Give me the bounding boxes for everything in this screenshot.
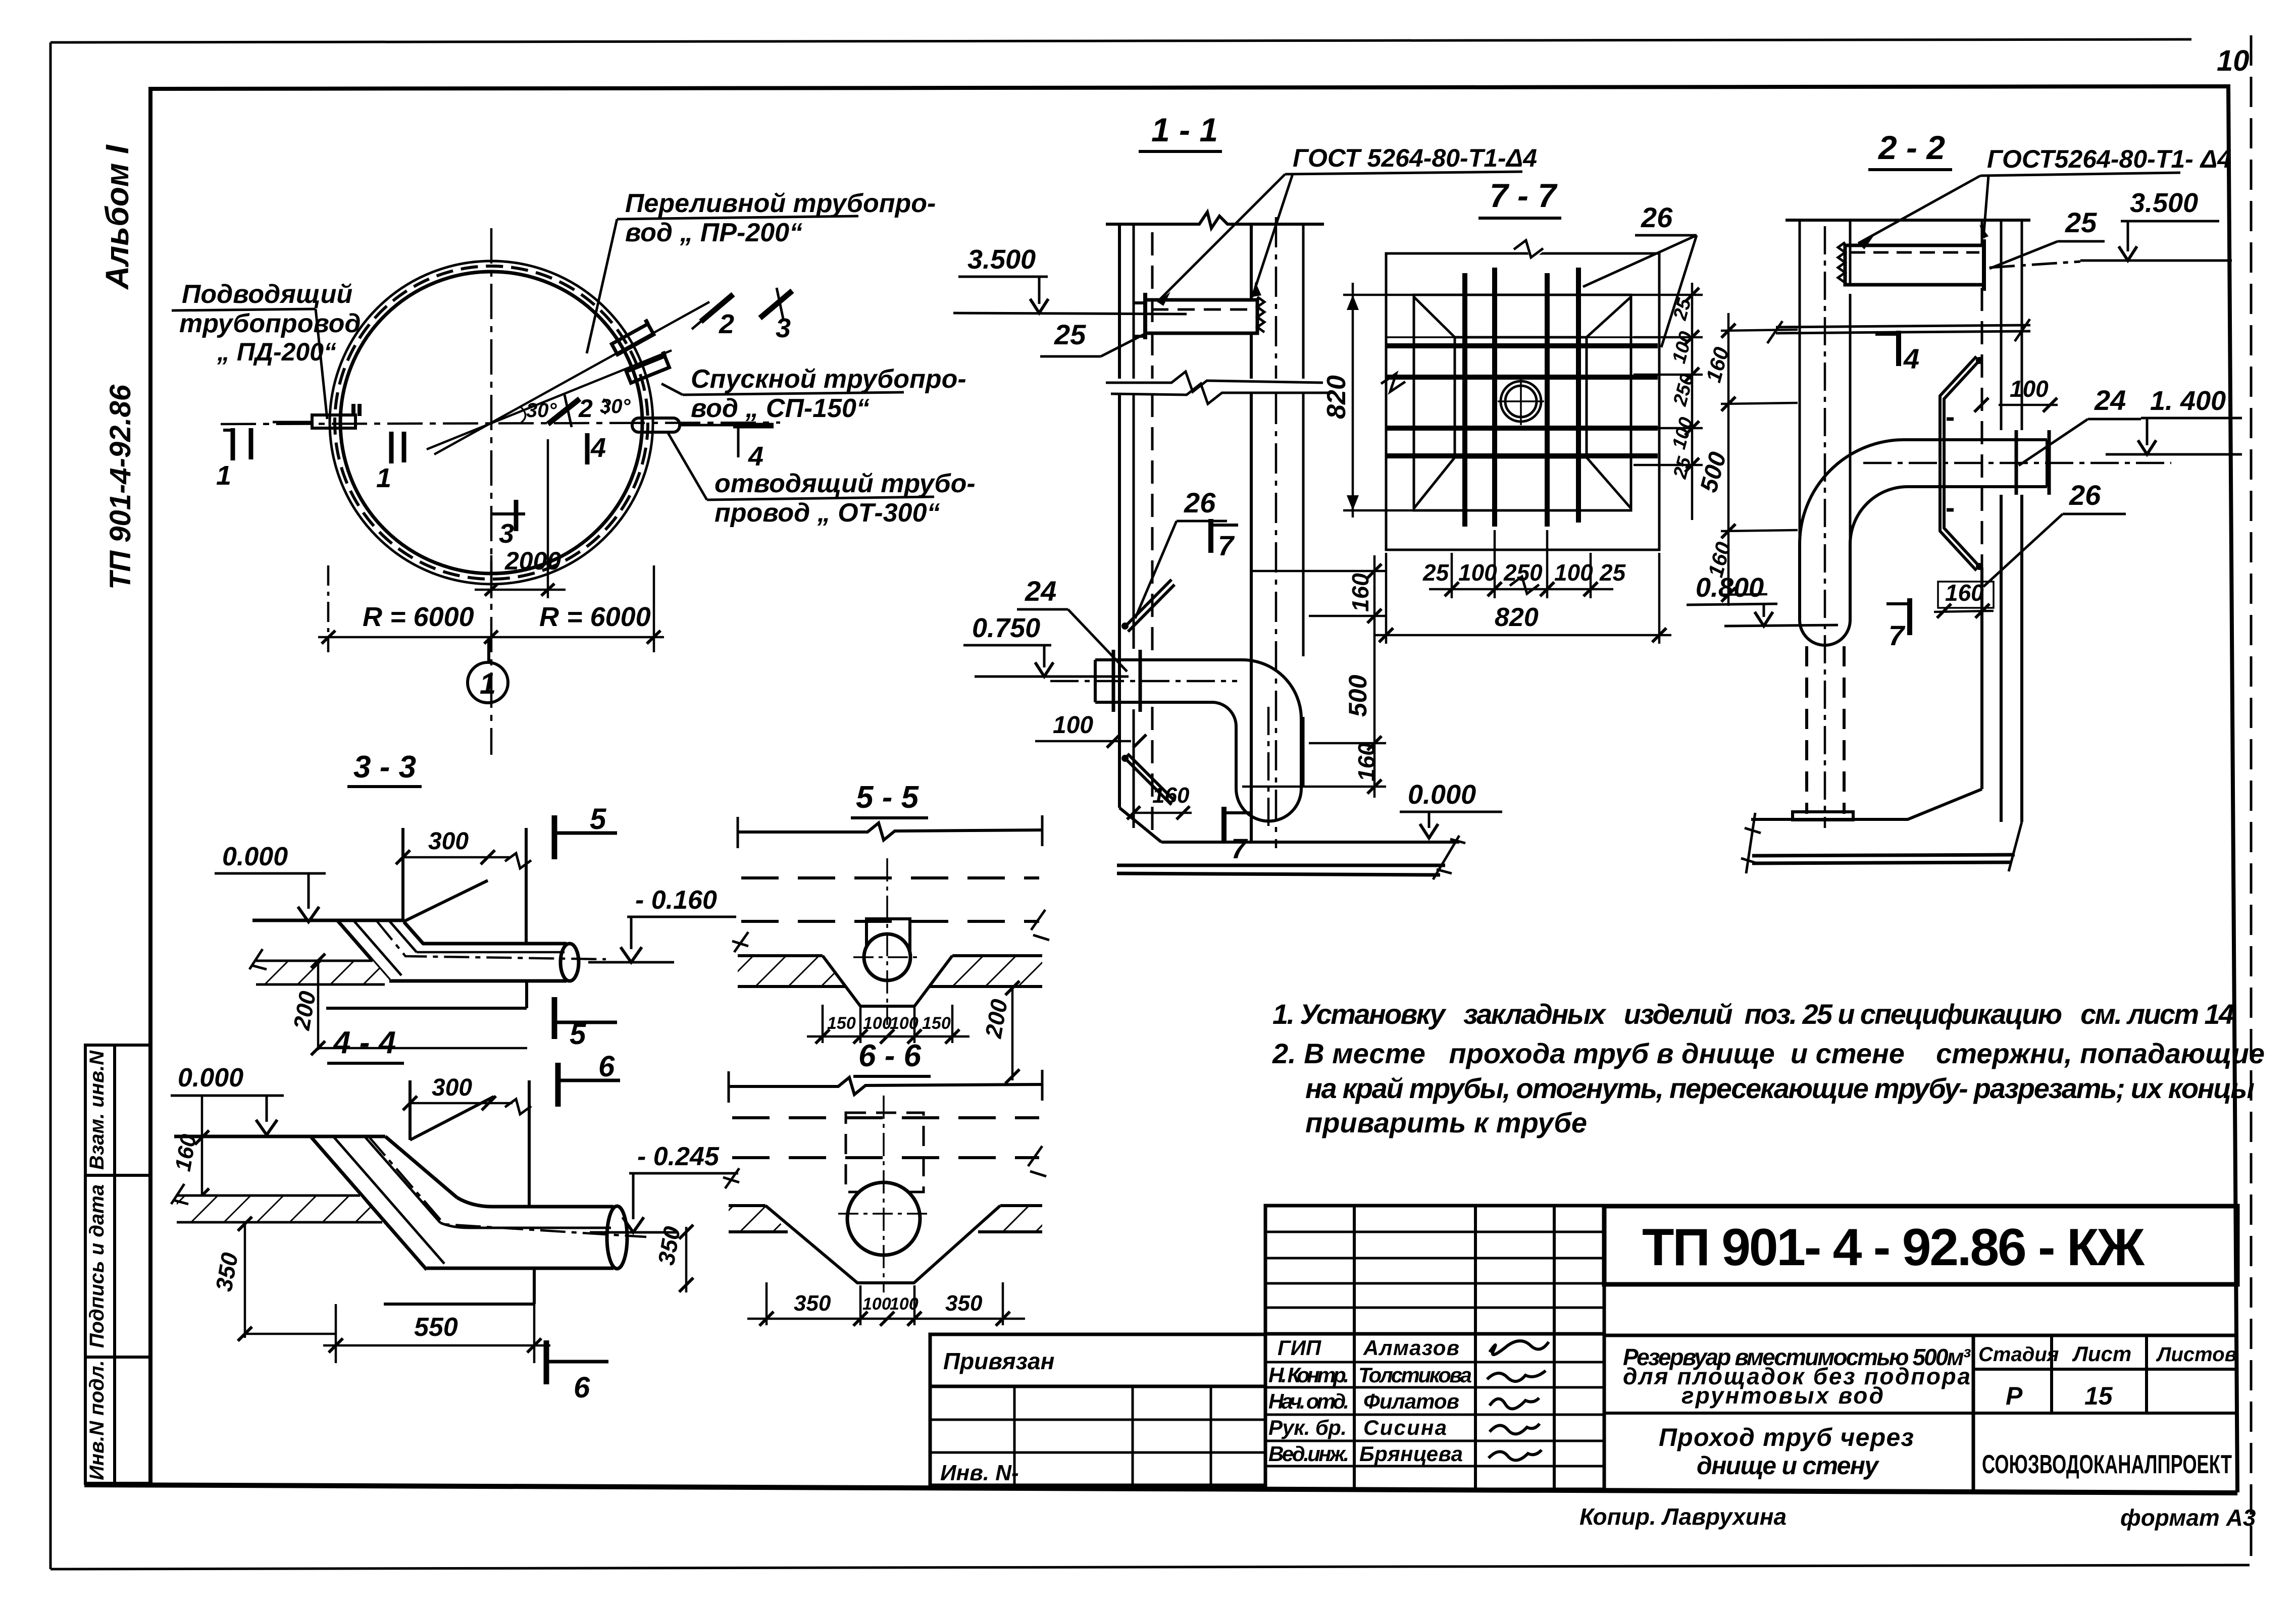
position label 25 leader: [1040, 319, 1146, 356]
top edge line: [1785, 219, 2030, 222]
pipe centerline horizontal: [1050, 680, 1237, 683]
overflow sleeve PR-200: [609, 320, 653, 354]
dim 100 wall thickness: [1974, 376, 2058, 412]
level mark 0.750: [963, 613, 1129, 677]
svg-text:провод „ ОТ-300“: провод „ ОТ-300“: [715, 498, 940, 528]
svg-text:2: 2: [578, 394, 593, 423]
horizontal pipe top edge: [1904, 438, 2047, 441]
outer plate square: [1386, 253, 1659, 550]
pipe axis slope: [369, 1136, 646, 1237]
svg-text:на край трубы, отогнуть, перес: на край трубы, отогнуть, пересекающие тр…: [1305, 1072, 2255, 1104]
svg-text:0.000: 0.000: [1408, 780, 1476, 810]
left margin stamp table: [85, 1045, 150, 1483]
svg-text:5 - 5: 5 - 5: [856, 780, 920, 815]
break marks left right: [732, 910, 1049, 952]
vertical pipe edges: [1800, 544, 1850, 620]
pipe end ellipse: [607, 1206, 627, 1269]
signatures squiggles: [1487, 1341, 1549, 1460]
dim 200 right: [980, 981, 1019, 1083]
svg-text:100: 100: [862, 1294, 891, 1314]
inner square: [1414, 295, 1631, 510]
slab hatch right: [978, 1206, 1042, 1232]
svg-text:- 0.160: - 0.160: [635, 886, 717, 915]
position label 25 leader: [1989, 206, 2105, 269]
svg-text:25: 25: [1599, 559, 1626, 586]
svg-text:26: 26: [1184, 487, 1216, 518]
pipe slope band: [311, 1136, 457, 1270]
dim 350 left: [211, 1217, 336, 1341]
svg-text:160: 160: [1353, 743, 1380, 782]
svg-text:550: 550: [414, 1313, 458, 1342]
section cut mark 1 left inner: [376, 432, 404, 493]
level mark 0.000: [215, 842, 326, 922]
svg-text:0.800: 0.800: [1696, 573, 1764, 603]
svg-text:350: 350: [794, 1291, 831, 1316]
position label 26 leader: [1135, 487, 1227, 618]
stadiya list listov boxes: [1973, 1335, 2237, 1492]
project name box top line: [1604, 1334, 2237, 1337]
svg-text:0.000: 0.000: [222, 842, 288, 871]
vertical pipe U bottom: [1800, 620, 1850, 645]
svg-text:ТП 901-4-92.86: ТП 901-4-92.86: [104, 384, 137, 590]
svg-text:300: 300: [428, 828, 469, 855]
section mark 7 lower: [1224, 807, 1251, 864]
svg-text:Листов: Листов: [2156, 1343, 2237, 1366]
vertical centerline: [490, 228, 493, 755]
svg-text:3.500: 3.500: [967, 244, 1036, 275]
svg-text:820: 820: [1495, 603, 1539, 632]
label podvodyashchiy truboprovod PD-200: [172, 280, 361, 419]
pipe elbow outer arc: [1242, 660, 1301, 719]
floor top line with haunch: [1751, 567, 1982, 819]
svg-text:Алмазов: Алмазов: [1363, 1336, 1459, 1360]
hook bracket poz.26 lower: [1121, 754, 1175, 805]
svg-text:26: 26: [2069, 479, 2101, 511]
level mark -0.160: [588, 886, 736, 962]
weld spec label GOST5264-80-T1-D4: [1858, 145, 2231, 249]
center pipe circle: [1501, 381, 1541, 422]
corner chamfer diagonals: [1414, 297, 1631, 508]
water line upper: [1776, 325, 2030, 327]
floor haunch diagonal: [1119, 808, 1161, 842]
label otvodyashchiy truboprovod OT-300: [668, 432, 976, 528]
signature rows text: [1268, 1336, 1472, 1466]
wall top edge with break jog: [738, 823, 1042, 840]
section cut mark 4 inner: [587, 433, 606, 464]
pipe horizontal bottom edge: [1095, 701, 1212, 704]
svg-text:1: 1: [480, 667, 496, 700]
svg-text:4 - 4: 4 - 4: [332, 1025, 396, 1060]
dim 550 bottom: [323, 1304, 550, 1363]
left break mark: [249, 949, 267, 969]
svg-text:формат А3: формат А3: [2120, 1504, 2256, 1531]
svg-text:Нач. отд.: Нач. отд.: [1268, 1389, 1349, 1413]
svg-text:1: 1: [376, 463, 391, 493]
svg-text:- 0.245: - 0.245: [637, 1142, 720, 1171]
pipe left end cap: [1094, 660, 1097, 702]
svg-text:2: 2: [719, 309, 734, 339]
svg-text:Филатов: Филатов: [1363, 1389, 1459, 1413]
hook bracket poz.26 upper: [1121, 580, 1175, 632]
svg-text:1. 400: 1. 400: [2150, 386, 2226, 416]
radial axis to SP-150 sleeve: [427, 350, 672, 449]
pipe centerline vertical: [1824, 226, 1826, 828]
outlet sleeve OT-300: [632, 418, 733, 432]
svg-text:2 - 2: 2 - 2: [1877, 129, 1945, 166]
rebar horizontal bars: [1387, 346, 1658, 456]
left privyazan box: [930, 1334, 1265, 1485]
svg-text:100: 100: [1458, 559, 1497, 586]
svg-text:160: 160: [1152, 783, 1190, 808]
svg-text:250: 250: [1503, 559, 1543, 586]
water dashed line upper: [741, 876, 1039, 879]
level mark 3.500: [953, 244, 1187, 314]
break marks: [723, 1146, 1046, 1188]
pipe vertical edges: [1236, 719, 1301, 789]
inlet sleeve PD-200: [273, 404, 360, 428]
pipe slope left inner edge: [353, 920, 401, 975]
slab hatch left: [256, 961, 389, 984]
right pipe bottom edge: [389, 979, 567, 983]
drain sleeve SP-150: [625, 351, 670, 383]
sleeve plate square: [1455, 337, 1587, 457]
pipe bottom U end: [1236, 789, 1301, 821]
funnel diagonal: [410, 1097, 494, 1140]
sleeve box above pipe: [866, 919, 910, 956]
left dim 820: [1322, 283, 1417, 517]
svg-text:24: 24: [2094, 384, 2126, 416]
right dimension chain 160-500-160: [1242, 555, 1386, 798]
section cut 6 top flag: [558, 1050, 620, 1107]
svg-text:160: 160: [1945, 580, 1984, 606]
inner border frame: [150, 86, 2237, 1492]
funnel right vertical: [525, 828, 528, 944]
svg-text:грунтовых вод: грунтовых вод: [1681, 1382, 1883, 1409]
slab top lines: [729, 1204, 1042, 1207]
sheet name divider: [1604, 1412, 1973, 1415]
svg-text:2000: 2000: [504, 547, 561, 575]
svg-text:7: 7: [1889, 619, 1906, 651]
label spusknoy truboprovod SP-150: [661, 365, 966, 423]
slab hatch left: [177, 1196, 382, 1222]
svg-text:СОЮЗВОДОКАНАЛПРОЕКТ: СОЮЗВОДОКАНАЛПРОЕКТ: [1982, 1450, 2232, 1479]
section cut mark 3 flag: [760, 288, 792, 343]
svg-text:7: 7: [1218, 530, 1235, 561]
svg-text:Толстикова: Толстикова: [1358, 1363, 1472, 1387]
svg-text:7 - 7: 7 - 7: [1490, 177, 1558, 214]
pipe slope left edge: [337, 920, 389, 980]
svg-text:25: 25: [2065, 206, 2097, 238]
right pipe top edge: [457, 1198, 614, 1207]
sleeve below pipe dashed: [1807, 646, 1844, 814]
dim 160 left: [171, 1096, 209, 1203]
section mark 4 flag: [1875, 331, 1919, 375]
section cut mark 3 below center: [492, 500, 525, 549]
dim 2000: [475, 439, 566, 598]
section cut 6 bottom flag: [546, 1340, 608, 1404]
svg-text:Проход труб через: Проход труб через: [1659, 1423, 1914, 1451]
wall sleeve at pipe pass: [2016, 430, 2049, 495]
slab bottom lines: [738, 985, 1042, 988]
svg-text:0.750: 0.750: [972, 613, 1040, 643]
label perelivnoy truboprovod PR-200: [587, 189, 936, 353]
svg-text:ТП 901- 4 - 92.86 - КЖ: ТП 901- 4 - 92.86 - КЖ: [1642, 1218, 2145, 1277]
svg-text:30°: 30°: [526, 399, 557, 422]
slab hatch left: [738, 956, 845, 986]
floor top line: [252, 919, 403, 922]
funnel left vertical: [401, 828, 404, 920]
svg-text:Копир. Лаврухина: Копир. Лаврухина: [1579, 1503, 1787, 1530]
funnel left vertical: [409, 1080, 412, 1140]
svg-text:Альбом I: Альбом I: [99, 144, 135, 290]
section mark 7 upper: [1211, 519, 1238, 561]
water dashed line upper: [732, 1116, 1039, 1119]
inner border bottom line: [84, 1485, 2237, 1493]
position label 24 leader: [2019, 384, 2141, 465]
V recess outline: [766, 1206, 1000, 1283]
right pipe top edge: [422, 942, 567, 946]
svg-text:7: 7: [1231, 833, 1248, 864]
funnel diagonal: [403, 880, 488, 922]
svg-text:3: 3: [776, 313, 791, 343]
slab top lines: [738, 954, 1042, 957]
svg-text:вод „ СП-150“: вод „ СП-150“: [691, 394, 870, 423]
channel bracket poz.26 on wall: [1940, 356, 1983, 570]
right pipe inner top line: [440, 1223, 611, 1228]
level mark -0.245: [590, 1142, 738, 1232]
svg-text:4: 4: [590, 433, 606, 463]
dim 350 right of 4-4: [653, 1224, 693, 1292]
svg-text:Инв. N-: Инв. N-: [940, 1461, 1019, 1485]
svg-text:820: 820: [1322, 375, 1351, 419]
wall faces going down to floor: [2001, 495, 2022, 822]
dim 160: [1934, 580, 1994, 618]
svg-text:350: 350: [945, 1291, 983, 1316]
left break mark: [171, 1184, 188, 1204]
pipe slope right edge: [404, 922, 423, 944]
water line break marks: [1767, 319, 2030, 343]
sleeve bottom flange: [1793, 812, 1853, 820]
svg-text:R = 6000: R = 6000: [363, 602, 474, 632]
section mark 7 flag: [1886, 598, 1910, 651]
water dashed line lower: [741, 920, 1039, 923]
svg-text:Вед.инж.: Вед.инж.: [1268, 1442, 1349, 1466]
section cut mark 4 right outer: [733, 426, 774, 472]
svg-text:100: 100: [2010, 376, 2049, 402]
svg-text:3.500: 3.500: [2130, 188, 2198, 218]
view header 3-3: [347, 750, 422, 787]
svg-text:1: 1: [216, 460, 231, 491]
left edge tick: [729, 1070, 1042, 1103]
svg-text:1. Установку закладных изд: 1. Установку закладных изделий поз. 25 и…: [1272, 998, 2234, 1030]
wall second face line: [1302, 224, 1305, 788]
wall top edge with break jog: [729, 1077, 1042, 1095]
svg-text:3: 3: [499, 518, 514, 549]
slab hatch right: [930, 956, 1042, 986]
svg-text:6: 6: [574, 1371, 590, 1404]
svg-text:днище и стену: днище и стену: [1697, 1451, 1879, 1480]
svg-text:1 - 1: 1 - 1: [1151, 111, 1218, 148]
svg-text:0.000: 0.000: [178, 1063, 243, 1093]
svg-text:5: 5: [570, 1018, 586, 1051]
title block main frame: [930, 1334, 1265, 1485]
svg-text:Привязан: Привязан: [943, 1348, 1054, 1374]
pipe centerlines: [886, 858, 888, 1025]
left dim chain 160-500-160: [1695, 313, 1798, 606]
pipe end ellipse: [560, 944, 579, 981]
svg-text:отводящий трубо-: отводящий трубо-: [715, 469, 976, 498]
dim 300: [403, 1074, 531, 1114]
svg-text:25: 25: [1422, 559, 1450, 586]
svg-text:500: 500: [1344, 674, 1372, 717]
svg-text:Спускной трубопро-: Спускной трубопро-: [691, 365, 966, 394]
svg-text:24: 24: [1025, 575, 1056, 607]
svg-text:6: 6: [598, 1050, 615, 1083]
svg-text:100: 100: [890, 1014, 919, 1033]
slab outline: [256, 961, 385, 984]
svg-text:10: 10: [2217, 44, 2250, 77]
funnel right vertical: [528, 1080, 531, 1207]
svg-text:150: 150: [922, 1014, 951, 1033]
pipe centerlines: [883, 1096, 885, 1292]
floor slab bottom lines: [1117, 865, 1445, 875]
dim 100 wall: [1035, 712, 1146, 748]
embedded sleeve poz.25 top: [1838, 239, 1984, 291]
pipe circle: [847, 1182, 920, 1255]
svg-text:Н. Контр.: Н. Контр.: [1268, 1363, 1349, 1387]
svg-text:5: 5: [590, 803, 606, 836]
wall outer inner line: [1133, 224, 1135, 828]
node mark 1 circled: [468, 637, 508, 703]
section cut 5 top flag: [554, 803, 617, 859]
svg-text:300: 300: [432, 1074, 472, 1101]
svg-text:100: 100: [1554, 559, 1593, 586]
pipe elbow inner arc: [1850, 487, 1908, 544]
svg-text:Рук. бр.: Рук. бр.: [1268, 1416, 1347, 1439]
svg-text:трубопровод: трубопровод: [179, 309, 361, 338]
dim 200: [288, 954, 527, 1055]
horizontal centerline: [221, 423, 780, 424]
embedded sleeve poz.25 top: [1134, 293, 1264, 339]
svg-text:2. В месте прохода труб в дн: 2. В месте прохода труб в днище и стене …: [1272, 1037, 2265, 1069]
wall inner face line: [1250, 224, 1253, 841]
slab outline: [177, 1196, 382, 1222]
thin mid lines across plate: [1387, 337, 1658, 457]
svg-text:Взам. инв.N: Взам. инв.N: [86, 1050, 108, 1170]
svg-text:100: 100: [1053, 712, 1093, 739]
svg-text:Р: Р: [2006, 1382, 2023, 1410]
angle arc marks: [520, 399, 608, 423]
svg-text:25: 25: [1054, 319, 1086, 350]
svg-text:30°: 30°: [600, 395, 631, 418]
level mark 0.800: [1687, 573, 1838, 626]
reservoir wall ring dashed mid circle: [335, 266, 648, 579]
floor top line: [1161, 841, 1459, 844]
outer square break top: [1515, 239, 1544, 256]
floor left break: [1741, 813, 1761, 873]
floor top line: [174, 1135, 385, 1138]
pipe elbow inner arc: [1212, 702, 1236, 726]
slab bottom lines: [729, 1230, 1042, 1233]
rebar vertical bars: [1465, 268, 1578, 527]
dashed sleeve box: [846, 1113, 924, 1192]
bottom dim chain 25-100-250-100-25: [1422, 530, 1626, 598]
reservoir wall ring inner circle: [340, 272, 642, 574]
radial axis to PR-200 sleeve: [434, 302, 709, 454]
svg-text:Стадия: Стадия: [1978, 1343, 2059, 1366]
album side label: [99, 144, 137, 590]
floor right break: [1433, 836, 1465, 879]
water dashed line lower: [732, 1156, 1039, 1159]
svg-text:100: 100: [863, 1014, 892, 1033]
pipe right end cap: [2046, 440, 2049, 487]
svg-text:приварить к трубе: приварить к трубе: [1305, 1107, 1587, 1138]
weld spec label GOST 5264-80-T1-D4: [1157, 144, 1537, 306]
riser pipe above sleeve: [1800, 220, 1850, 544]
svg-text:Подводящий: Подводящий: [182, 280, 352, 309]
bottom dim 820: [1373, 553, 1671, 644]
pipe horizontal top edge: [1095, 658, 1242, 661]
position label 26 leader: [1983, 479, 2126, 587]
V recess outline: [823, 956, 952, 1006]
wall rebar dashed: [1981, 288, 1983, 788]
svg-text:Подпись и дата: Подпись и дата: [86, 1184, 108, 1348]
signature table frame: [1265, 1206, 1604, 1489]
svg-text:ГОСТ5264-80-Т1- Δ4: ГОСТ5264-80-Т1- Δ4: [1987, 145, 2231, 173]
svg-text:ГИП: ГИП: [1278, 1336, 1321, 1360]
wall break line lower: [1111, 384, 1329, 404]
dim R=6000 left: [318, 565, 664, 652]
wall break line upper: [1106, 372, 1323, 392]
svg-text:вод „ ПР-200“: вод „ ПР-200“: [625, 218, 802, 247]
pipe centerline vertical: [1267, 707, 1270, 832]
dim 300: [396, 828, 531, 868]
sleeve bottom line: [326, 981, 527, 1008]
svg-text:4: 4: [1903, 343, 1919, 375]
pipe axis slope and horizontal: [376, 920, 606, 959]
svg-text:100: 100: [890, 1294, 919, 1314]
right pipe bottom edge: [427, 1267, 614, 1270]
svg-text:R = 6000: R = 6000: [539, 602, 651, 632]
dim 160 bottom left: [1127, 783, 1192, 819]
svg-text:26: 26: [1641, 201, 1673, 233]
pipe elbow outer arc: [1800, 440, 1904, 544]
pipe centerline horizontal: [1863, 462, 2171, 464]
svg-text:4: 4: [748, 441, 763, 472]
slab hatch left: [729, 1206, 788, 1232]
wall outer face line: [1118, 224, 1121, 808]
reservoir wall ring outer circle: [330, 261, 653, 584]
section cut mark 2 flag: [692, 294, 734, 339]
pipe slope right inner edge: [389, 920, 417, 952]
left edge tick: [738, 815, 1042, 848]
horizontal pipe bottom edge: [1908, 485, 2047, 488]
svg-text:15: 15: [2084, 1382, 2113, 1410]
level mark 1.400: [2106, 386, 2242, 454]
svg-text:ГОСТ 5264-80-Т1-Δ4: ГОСТ 5264-80-Т1-Δ4: [1293, 144, 1537, 172]
wall axis dash-dot: [1275, 217, 1278, 848]
position label 26 with double leader: [1583, 201, 1697, 347]
section cut mark 2 near center: [548, 394, 593, 427]
svg-text:6 - 6: 6 - 6: [858, 1038, 922, 1073]
svg-text:160: 160: [1347, 573, 1373, 612]
doc code box: [1604, 1206, 2237, 1284]
right dim chain 25-100-250-100-25: [1596, 283, 1703, 520]
dim chain 350-100-100-350: [747, 1282, 1025, 1326]
right pipe inner top line: [417, 951, 565, 954]
svg-text:Брянцева: Брянцева: [1359, 1442, 1463, 1466]
floor right break: [2009, 822, 2022, 871]
